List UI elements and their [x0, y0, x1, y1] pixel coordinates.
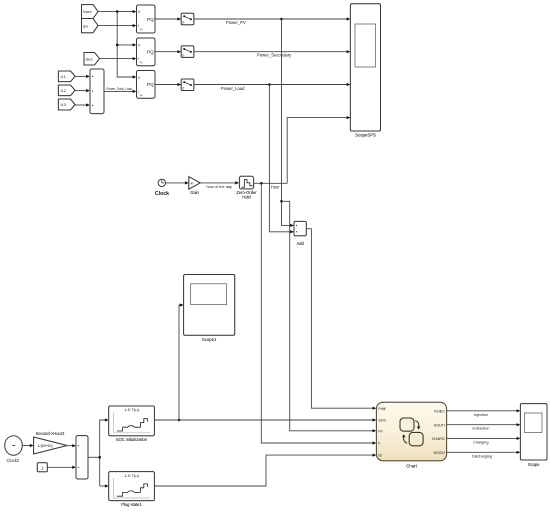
svg-text:PQ: PQ [147, 17, 154, 22]
svg-text:Pv: Pv [378, 429, 382, 433]
wire branch down to Chart Pv input [282, 201, 377, 432]
svg-text:Clock2: Clock2 [7, 458, 20, 463]
junction Power_PV to Pv branch [280, 200, 283, 203]
tag IL2 [58, 85, 75, 96]
svg-text:PQ: PQ [147, 50, 154, 55]
wire Hour up to ScopeSPS in4 [287, 116, 350, 183]
svg-text:IL1: IL1 [61, 74, 66, 79]
svg-text:Pdiff: Pdiff [378, 407, 385, 411]
wire gain to mux in1 [67, 444, 76, 447]
svg-text:SOUTI: SOUTI [434, 424, 445, 428]
svg-text:1-D T(u): 1-D T(u) [124, 473, 139, 478]
svg-text:PQ: PQ [147, 82, 154, 87]
gain 1/(60*60) with label Second->Hour2 [34, 431, 67, 454]
svg-text:0: 0 [182, 86, 184, 90]
stateflow Chart [376, 402, 446, 468]
svg-text:Power_Total_Load: Power_Total_Load [107, 86, 133, 91]
svg-text:tS: tS [378, 454, 382, 458]
tag Isec [84, 53, 100, 66]
wire Hour down to Chart h input [261, 183, 376, 444]
junction Vsec-PQ2 [116, 44, 119, 47]
svg-text:Gain: Gain [190, 190, 199, 195]
svg-text:Scope1: Scope1 [202, 337, 217, 342]
scope ScopeSPS [350, 4, 380, 138]
svg-text:Scope: Scope [528, 462, 540, 467]
wire constant to mux in2 [47, 466, 76, 469]
wire Clock2 to gain [22, 444, 33, 447]
svg-text:CHARG: CHARG [432, 437, 445, 441]
gain Gain [189, 177, 200, 196]
svg-text:-K-: -K- [190, 181, 195, 185]
svg-text:Power_PV: Power_PV [226, 20, 246, 25]
svg-text:Discharging: Discharging [472, 454, 492, 458]
svg-text:Ipv: Ipv [83, 23, 88, 28]
svg-text:Power_Secondary: Power_Secondary [257, 53, 292, 58]
wire SOC init to Scope1 [179, 303, 184, 420]
wire IL3 to sum [75, 103, 90, 106]
svg-text:Clock: Clock [155, 191, 169, 197]
lookup table SOC initialization [109, 406, 155, 442]
svg-text:I: I [138, 24, 139, 28]
wire PQ3 to switch3 [155, 83, 181, 86]
zero-order hold [236, 176, 257, 199]
wire Gain to Zero-Order Hold, label hour of the day [200, 181, 239, 189]
wire Power_Load switch3 to ScopeSPS in3 [194, 83, 351, 91]
svg-text:h: h [378, 442, 380, 446]
manual switch 1 [181, 13, 194, 25]
tag IL3 [58, 99, 75, 110]
sum block Add [294, 221, 306, 245]
wire Add output down to Chart Pdiff input [306, 229, 376, 410]
wire Power_Secondary switch2 to ScopeSPS in2 [194, 50, 351, 58]
wire PQ1 to switch1 [155, 17, 181, 20]
svg-text:Charging: Charging [473, 441, 488, 445]
junction Vsec branch [116, 10, 119, 13]
junction Hour tap [260, 182, 263, 185]
junction SOC wire to Scope1 [178, 419, 181, 422]
lookup table Plug state1 [109, 472, 155, 508]
svg-text:1-D T(u): 1-D T(u) [124, 407, 139, 412]
wire IL1 to sum [75, 75, 90, 78]
svg-text:INJEC: INJEC [434, 410, 445, 414]
scope Scope [520, 404, 547, 467]
wire mux out split to lookup tables [88, 418, 109, 487]
svg-text:Hold: Hold [242, 195, 251, 200]
scope Scope1 [184, 275, 235, 343]
tag IL1 [58, 71, 75, 82]
svg-text:DISCH: DISCH [434, 451, 446, 455]
wire sum to PQ3 I with label Power_Total_Load [104, 86, 136, 93]
wire Power_Load down to Add in2 [269, 85, 294, 234]
svg-text:1/(60*60): 1/(60*60) [38, 444, 53, 448]
wire Isec to PQ2 I [100, 57, 137, 60]
PQ measurement block 1 [137, 5, 156, 33]
junction Power_Load tap [268, 83, 271, 86]
PQ measurement block 2 [137, 38, 156, 66]
svg-text:Isec: Isec [86, 56, 93, 61]
junction mux out split [98, 456, 101, 459]
svg-text:Hour: Hour [271, 184, 281, 189]
svg-text:Injection: Injection [474, 413, 488, 417]
wire Charging chart to scope [447, 437, 521, 445]
chart state icon squares and arrows [400, 418, 423, 446]
constant 1 [37, 463, 47, 472]
svg-text:0: 0 [182, 21, 184, 25]
mux block (2-input) [76, 436, 88, 479]
svg-text:Extraction: Extraction [473, 427, 490, 431]
manual switch 2 [181, 46, 194, 58]
wire Plug state1 to Chart tS input [154, 454, 376, 487]
wire Vsec vertical branch to PQ2 V and PQ3 V [117, 12, 136, 79]
svg-text:Vsec: Vsec [83, 9, 92, 14]
svg-text:IL2: IL2 [61, 88, 66, 93]
clock Clock2 [5, 436, 23, 463]
wire Vsec to PQ1 V [98, 10, 136, 13]
wire Discharging chart to scope [447, 451, 521, 459]
wire IL2 to sum [75, 89, 90, 92]
svg-text:I: I [138, 57, 139, 61]
svg-text:Add: Add [297, 241, 305, 246]
svg-text:Chart: Chart [406, 463, 418, 468]
manual switch 3 [181, 79, 194, 91]
svg-text:ScopeSPS: ScopeSPS [355, 133, 376, 138]
PQ measurement block 3 [137, 71, 156, 99]
wire PQ2 to switch2 [155, 50, 181, 53]
wire Clock to Gain [166, 181, 189, 184]
svg-text:SOC: SOC [378, 419, 386, 423]
svg-text:0: 0 [182, 53, 184, 57]
junction Power_PV tap [280, 18, 283, 21]
svg-text:Power_Load: Power_Load [221, 86, 245, 91]
svg-text:I: I [138, 90, 139, 94]
svg-text:Plug state1: Plug state1 [121, 502, 142, 507]
wire Hour from zero-order hold [254, 183, 288, 189]
wire SOC initialization to Chart SOC input [154, 418, 376, 421]
wire Power_PV switch1 to ScopeSPS in1 [194, 17, 351, 24]
tag Vsec [82, 5, 99, 19]
sum block (3-input) [90, 69, 104, 114]
clock Clock [155, 179, 169, 197]
wire Power_PV down to Add in1 [282, 19, 294, 227]
svg-text:IL3: IL3 [61, 102, 66, 107]
svg-text:SOC initialization: SOC initialization [116, 437, 148, 442]
svg-text:hour of the day: hour of the day [207, 185, 232, 189]
wire Ipv to PQ1 I [98, 24, 136, 27]
tag Ipv [82, 19, 99, 33]
svg-text:Second->Hour2: Second->Hour2 [36, 431, 66, 436]
wire Injection chart to scope [447, 409, 521, 417]
wire Extraction chart to scope [447, 423, 521, 431]
